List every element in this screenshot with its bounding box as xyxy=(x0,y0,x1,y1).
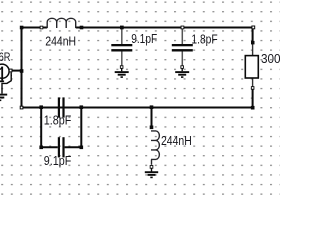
svg-text:56R: 56R xyxy=(0,52,11,64)
svg-text:1.8pF: 1.8pF xyxy=(44,112,72,127)
svg-text:9.1pF: 9.1pF xyxy=(131,31,157,46)
svg-text:1.8pF: 1.8pF xyxy=(191,32,217,47)
svg-text:9.1pF: 9.1pF xyxy=(44,153,72,168)
svg-text:244nH: 244nH xyxy=(45,34,76,49)
svg-text:300R: 300R xyxy=(261,51,280,66)
svg-text:244nH: 244nH xyxy=(161,133,192,148)
